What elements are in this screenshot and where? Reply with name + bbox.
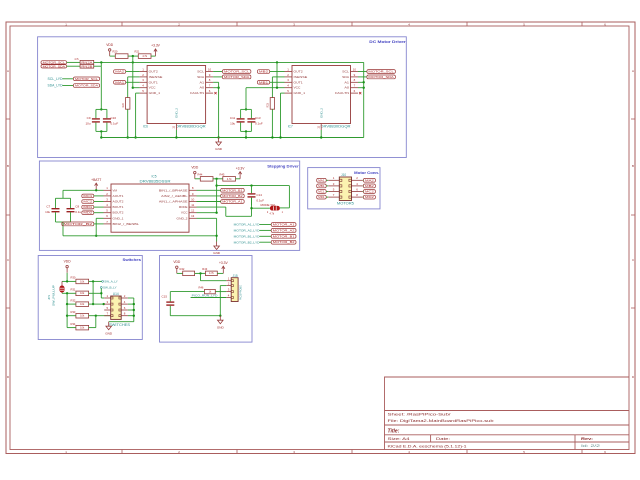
svg-text:R43: R43 bbox=[202, 267, 207, 271]
svg-text:MB2: MB2 bbox=[365, 184, 374, 188]
svg-text:4.7k: 4.7k bbox=[270, 213, 275, 216]
junction VCC1 bbox=[132, 87, 134, 89]
U14 pin 6 bbox=[121, 306, 128, 310]
svg-text:MA2: MA2 bbox=[365, 178, 374, 182]
junction U14 right tie 315.7 bbox=[133, 315, 135, 317]
wire C11/C13 top bracket bbox=[241, 108, 252, 110]
svg-text:OUT2: OUT2 bbox=[294, 70, 303, 74]
wire GND rail (DC drivers) bbox=[101, 137, 363, 139]
svg-text:VM: VM bbox=[113, 188, 118, 192]
svg-text:R21: R21 bbox=[135, 50, 140, 54]
junction IC6 pad/GND rail bbox=[175, 136, 177, 138]
IC5 pin 13 GND_2 bbox=[189, 214, 197, 218]
svg-text:BIN2_/_BENBL: BIN2_/_BENBL bbox=[113, 222, 140, 226]
svg-text:MOTOR_A1: MOTOR_A1 bbox=[273, 223, 295, 227]
wire BPHASE to MOTOR_B1 bbox=[197, 189, 221, 191]
svg-text:A: A bbox=[632, 69, 634, 73]
frame column ticks and zone numbers bbox=[65, 22, 606, 454]
global label MOTOR_SDA (IC6) bbox=[222, 75, 251, 79]
svg-text:MOTOR_B2: MOTOR_B2 bbox=[63, 222, 92, 226]
svg-text:R30: R30 bbox=[71, 276, 76, 280]
wire MC2 to AOUT2 bbox=[94, 201, 104, 203]
solder jumper SB2 (MODE SEL) bbox=[267, 206, 284, 216]
svg-text:R44: R44 bbox=[198, 172, 203, 176]
svg-text:ISENSE: ISENSE bbox=[149, 75, 163, 79]
IC5 pin 5 BOUT2 bbox=[104, 209, 112, 213]
C9 labels bbox=[85, 116, 90, 125]
junction A1 (IC7) bbox=[363, 81, 365, 83]
svg-text:4.7k: 4.7k bbox=[227, 178, 232, 181]
wire U14 right pin at 310 bbox=[128, 309, 134, 311]
junction rail / VCC2 feed bbox=[276, 61, 278, 63]
IC7 pin 5 GND_1 bbox=[285, 89, 293, 93]
resistor R45 bbox=[220, 172, 236, 181]
global label MD2 (conn) bbox=[363, 195, 375, 199]
global label MD2 bbox=[82, 211, 94, 215]
wire MA1 stub bbox=[326, 179, 328, 181]
J10 pin 2 bbox=[352, 176, 363, 180]
junction VCC feed/3.3V rail (stepper) bbox=[215, 184, 217, 186]
wire cap feed C7/C8 bbox=[62, 190, 64, 198]
capacitor C10 bbox=[103, 109, 111, 131]
svg-text:MOTOR_A2: MOTOR_A2 bbox=[273, 228, 295, 232]
wire A1 (IC7) bbox=[358, 81, 364, 83]
svg-text:GND_1: GND_1 bbox=[113, 216, 124, 220]
svg-text:FAULTN: FAULTN bbox=[190, 91, 204, 95]
IC7 pin 6 FAULTN bbox=[351, 89, 359, 93]
svg-text:A: A bbox=[7, 69, 9, 73]
global label MD1 (conn) bbox=[317, 195, 327, 199]
svg-text:C7: C7 bbox=[46, 205, 50, 209]
wire C14 bottom to MODE net bbox=[251, 198, 253, 216]
wire MOTOR_B2_LYD stub bbox=[260, 241, 272, 243]
svg-text:SCL: SCL bbox=[197, 70, 204, 74]
wire A1/A0 tie (IC7) bbox=[363, 62, 365, 137]
wire VCC2 feed vertical bbox=[276, 62, 278, 87]
resistor R34 bbox=[71, 322, 89, 330]
J10 pin 5 pad mark bbox=[339, 190, 342, 192]
svg-text:GND: GND bbox=[215, 147, 223, 151]
junction C11/C13 bottom bbox=[245, 130, 247, 132]
svg-text:A1: A1 bbox=[200, 80, 205, 84]
wire VDD to R42 bbox=[177, 272, 183, 274]
svg-text:R34: R34 bbox=[71, 322, 76, 326]
wire GND_1 (IC5) bbox=[96, 217, 103, 219]
global label MC2 (conn) bbox=[363, 190, 375, 194]
svg-text:R32: R32 bbox=[71, 298, 76, 302]
wire MA2 stub bbox=[362, 179, 365, 181]
J10 pin 3 pad mark bbox=[339, 185, 342, 187]
svg-text:D: D bbox=[632, 375, 634, 379]
svg-text:A0: A0 bbox=[200, 86, 205, 90]
svg-text:MOTOR_SCL: MOTOR_SCL bbox=[224, 70, 250, 74]
svg-text:13: 13 bbox=[191, 214, 195, 218]
svg-text:+BATT: +BATT bbox=[91, 178, 101, 182]
wire C7/C8 top bracket bbox=[56, 197, 71, 199]
svg-text:AIN1_/_APHASE: AIN1_/_APHASE bbox=[159, 200, 188, 204]
resistor R43 bbox=[202, 267, 217, 276]
wire IC7 pad to GND rail bbox=[320, 130, 322, 138]
solder jumper JP3 SW_PULLUP bbox=[47, 281, 65, 306]
svg-text:Size: A4: Size: A4 bbox=[388, 437, 410, 441]
IC5 pin 10 AIN1_/_APHASE bbox=[189, 197, 197, 201]
wire R32 to U14 pin 3 bbox=[89, 303, 105, 305]
global label MOTOR_SDA (IC7) bbox=[367, 75, 396, 79]
IC5 right pin names bbox=[159, 188, 188, 220]
wire SCL_LYD stub bbox=[63, 78, 74, 80]
junction R44/R45 node bbox=[215, 178, 217, 180]
svg-text:MOTOR_SDA: MOTOR_SDA bbox=[75, 84, 98, 88]
wire GND rail (stepper) bbox=[63, 235, 217, 237]
wire MD2 to BOUT2 bbox=[94, 212, 104, 214]
wire SCL1 bbox=[213, 71, 222, 73]
power symbol VDD (DC driver) bbox=[106, 43, 114, 56]
resistor R42 bbox=[180, 267, 195, 276]
svg-text:JP3: JP3 bbox=[47, 295, 51, 300]
svg-text:10u: 10u bbox=[45, 210, 50, 214]
IC7 pin 1 OUT2 bbox=[285, 67, 293, 71]
global label MOTOR_SDA (bus) bbox=[73, 84, 99, 88]
C13 labels bbox=[255, 116, 263, 125]
IC6 pin 11 (pad) bbox=[173, 124, 177, 131]
wire cap feed C9/C10 bbox=[100, 66, 102, 109]
junction GND_1/GND rail bbox=[134, 136, 136, 138]
IC7 pin 3 OUT1 bbox=[285, 78, 293, 82]
C11 labels bbox=[230, 116, 236, 125]
wire U14 pin2 bbox=[128, 297, 134, 299]
global label MOTOR_B2 (bottom) bbox=[271, 240, 296, 244]
wire A1/A0 tie to GND (IC6) bbox=[218, 82, 220, 137]
svg-text:11: 11 bbox=[191, 203, 194, 207]
svg-text:MOTOR_A1: MOTOR_A1 bbox=[222, 200, 243, 204]
J15 pin 2 pad mark bbox=[231, 285, 233, 287]
wire VCC2 row bbox=[246, 87, 285, 89]
svg-text:R42: R42 bbox=[180, 267, 185, 271]
C8 labels bbox=[75, 205, 81, 215]
svg-text:MOTOR_B1: MOTOR_B1 bbox=[273, 234, 295, 238]
power symbol GND (stepper) bbox=[213, 242, 221, 256]
wire APHASE to MOTOR_A1 bbox=[197, 201, 221, 203]
note box: Motor Conn section bbox=[308, 168, 380, 209]
no-connect FAULTN IC7 bbox=[359, 92, 361, 94]
U14 pin 2 bbox=[121, 294, 128, 298]
wire SCL to RN2A bbox=[67, 61, 81, 63]
IC6 pin 6 FAULTN bbox=[206, 89, 214, 93]
svg-text:D: D bbox=[7, 375, 9, 379]
wire ISENSE1 down bbox=[127, 77, 129, 98]
wire RN2B riser bbox=[100, 62, 102, 66]
wire R46 to C15 bbox=[170, 291, 204, 293]
wire GND rail (aux) bbox=[170, 315, 220, 317]
J15 pin 2 bbox=[226, 282, 231, 286]
J15 pin 1 pad mark bbox=[231, 280, 233, 282]
svg-text:C8: C8 bbox=[75, 205, 79, 209]
resistor R22 (sense, vertical) bbox=[122, 98, 130, 110]
J10 pin 3 bbox=[328, 182, 339, 186]
wire J15 pin4 PICO_RUN bbox=[191, 297, 227, 299]
U14 pin 2 pad mark bbox=[119, 297, 121, 299]
global label MA1 (conn) bbox=[317, 178, 327, 182]
svg-text:DRV8835DSSR: DRV8835DSSR bbox=[140, 179, 172, 183]
global label MOTOR_A1 (ctl) bbox=[221, 200, 245, 204]
svg-text:DRV8830DGQR: DRV8830DGQR bbox=[176, 125, 207, 129]
svg-text:SDA: SDA bbox=[197, 75, 205, 79]
svg-text:KiCad E.D.A. eeschema (5.1.12: KiCad E.D.A. eeschema (5.1.12)-1 bbox=[388, 444, 467, 448]
svg-text:R45: R45 bbox=[220, 172, 225, 176]
wire AENBL to MOTOR_B2 bbox=[197, 195, 221, 197]
junction R32 feed bbox=[66, 303, 68, 305]
power symbol GND (switches) bbox=[105, 322, 113, 336]
U14 pin 6 pad mark bbox=[119, 309, 121, 311]
svg-text:Title:: Title: bbox=[388, 429, 400, 435]
J10 pin 4 bbox=[352, 182, 363, 186]
C7 labels bbox=[45, 205, 50, 215]
wire IC6 pad to GND rail bbox=[175, 130, 177, 138]
U14 pin 4 pad mark bbox=[119, 303, 121, 305]
U14 pin 5 pad mark bbox=[111, 309, 113, 311]
wire MODE across bbox=[226, 215, 252, 217]
svg-text:MOTOR_B1_LYD: MOTOR_B1_LYD bbox=[234, 234, 260, 238]
switch array U14 body bbox=[111, 296, 122, 319]
wire C11/C13 bottom bracket bbox=[241, 130, 252, 132]
wire MODE row bbox=[197, 206, 226, 208]
title block texts bbox=[388, 413, 601, 449]
wire MODE down bbox=[225, 207, 227, 216]
resistor R33 bbox=[71, 310, 89, 318]
wire rail down to MODE SEL bbox=[288, 186, 290, 208]
IC6 pin 2 ISENSE bbox=[140, 73, 148, 77]
svg-text:Id: 2/2: Id: 2/2 bbox=[581, 444, 600, 448]
wire VDD to R20 bbox=[110, 55, 116, 57]
junction VDD/R30 bbox=[66, 280, 68, 282]
svg-text:MA2: MA2 bbox=[115, 70, 124, 74]
junction row4 bbox=[95, 315, 97, 317]
wire GND_1 down (IC6) bbox=[135, 93, 137, 137]
junction rail / C9 feed bbox=[100, 61, 102, 63]
svg-text:MC1: MC1 bbox=[318, 190, 325, 194]
IC7 pin 11 (pad) bbox=[317, 124, 321, 131]
wire SDA to RN2B bbox=[67, 65, 81, 67]
svg-text:SDA: SDA bbox=[342, 75, 350, 79]
note box: aux connector section bbox=[160, 256, 253, 343]
svg-text:MB2: MB2 bbox=[259, 70, 269, 74]
svg-text:MOTOR5: MOTOR5 bbox=[337, 202, 354, 206]
global label MOTOR_B2 (ctl) bbox=[221, 194, 245, 198]
svg-text:IC6: IC6 bbox=[143, 125, 148, 129]
svg-text:PICOPROBE: PICOPROBE bbox=[240, 285, 243, 300]
svg-text:SW_PULLUP: SW_PULLUP bbox=[52, 285, 56, 306]
svg-text:SW_B_LY: SW_B_LY bbox=[103, 286, 117, 290]
IC7 pin 10 SCL bbox=[351, 67, 359, 71]
svg-text:GND_1: GND_1 bbox=[294, 91, 306, 95]
wire MD1 to BOUT1 bbox=[94, 206, 104, 208]
wire MC1 to AOUT1 bbox=[94, 195, 104, 197]
svg-text:Rev:: Rev: bbox=[581, 437, 593, 441]
svg-text:Motor Conn.: Motor Conn. bbox=[354, 171, 379, 175]
wire VDD to R44 bbox=[195, 178, 201, 180]
wire pull-up feed vertical bbox=[66, 293, 68, 327]
U14 pin 7 bbox=[104, 312, 111, 316]
wire MD2 stub bbox=[362, 196, 365, 198]
IC6 pin 4 VCC bbox=[140, 84, 148, 88]
global label MB2 (conn) bbox=[363, 184, 375, 188]
wire SDA1 bbox=[213, 76, 222, 78]
svg-text:MA1: MA1 bbox=[318, 178, 325, 182]
C14 labels bbox=[256, 193, 264, 202]
junction R23/GND rail bbox=[271, 136, 273, 138]
wire J15 pin3 to R46 bbox=[215, 291, 226, 293]
svg-text:VDD: VDD bbox=[191, 166, 199, 170]
svg-text:Sheet: /RasPiPico-Sub/: Sheet: /RasPiPico-Sub/ bbox=[388, 413, 452, 417]
svg-text:SDA_LYD: SDA_LYD bbox=[48, 84, 64, 88]
svg-text:RN2B: RN2B bbox=[81, 64, 92, 68]
wire VCC row (IC5) bbox=[197, 212, 217, 214]
svg-text:4.7k: 4.7k bbox=[142, 55, 147, 58]
svg-text:FAULTN: FAULTN bbox=[335, 91, 349, 95]
wire +3.3V distribution rail bbox=[94, 61, 364, 63]
svg-text:GND_1: GND_1 bbox=[149, 91, 161, 95]
J15 pin 4 pad mark bbox=[231, 297, 233, 299]
IC6 pin 8 A1 bbox=[206, 78, 214, 82]
U14 pin 8 bbox=[121, 312, 128, 316]
wire R34 row bbox=[89, 327, 96, 329]
resistor network RN2B bbox=[80, 64, 94, 68]
IC7 right pin names bbox=[335, 70, 350, 96]
svg-text:IC7: IC7 bbox=[288, 125, 293, 129]
IC5 pin 6 GND_1 bbox=[104, 214, 112, 218]
wire JP3 to R31 bbox=[62, 292, 76, 294]
junction A0 (IC7) bbox=[363, 87, 365, 89]
svg-text:GND: GND bbox=[217, 325, 225, 329]
wire VDD row to R30 bbox=[62, 280, 76, 282]
svg-text:ISENSE: ISENSE bbox=[294, 75, 308, 79]
global label MA1 bbox=[114, 80, 126, 84]
junction rail/C14 bbox=[250, 184, 252, 186]
junction R20/R21 node bbox=[132, 55, 134, 57]
stepper driver IC5 DRV8835 body bbox=[111, 184, 189, 232]
wire caps to GND rail (stepper) bbox=[62, 222, 64, 236]
svg-text:A0: A0 bbox=[344, 86, 349, 90]
resistor network RN2A bbox=[74, 59, 93, 65]
wire C9/C10 bottom bracket bbox=[96, 130, 107, 132]
svg-text:MOTOR_B2: MOTOR_B2 bbox=[222, 194, 243, 198]
wire U14 right tie vertical bbox=[133, 298, 135, 322]
capacitor C9 bbox=[92, 109, 100, 131]
junction caps/GND rail bbox=[100, 136, 102, 138]
svg-text:MD1: MD1 bbox=[318, 195, 325, 199]
junction C11/C13 top bbox=[245, 108, 247, 110]
svg-text:C9: C9 bbox=[87, 116, 91, 120]
IC7 left pin names bbox=[294, 70, 308, 96]
global label MB2 bbox=[257, 70, 269, 74]
J10 pin 8 pad mark bbox=[349, 196, 352, 198]
global label MC1 bbox=[82, 194, 94, 198]
wire U14 right pin at 304.1 bbox=[128, 303, 134, 305]
svg-text:AOUT2: AOUT2 bbox=[113, 200, 124, 204]
wire to MODE SEL pin 1 bbox=[280, 207, 289, 209]
svg-text:R20: R20 bbox=[113, 50, 118, 54]
IC5 pin 3 AOUT2 bbox=[104, 197, 112, 201]
svg-text:12: 12 bbox=[191, 209, 195, 213]
wire MA1 to OUT1 bbox=[126, 81, 140, 83]
svg-text:OUT1: OUT1 bbox=[149, 80, 158, 84]
svg-text:B: B bbox=[7, 164, 9, 168]
svg-text:MOTOR_B2_LYD: MOTOR_B2_LYD bbox=[234, 240, 260, 244]
wire VCC feed (IC5) bbox=[216, 179, 218, 213]
IC7 pin 4 VCC bbox=[285, 84, 293, 88]
global label MD1 bbox=[82, 205, 94, 209]
global label MOTOR_A2 (bottom) bbox=[271, 228, 296, 232]
junction GND_1 IC5/GND rail bbox=[95, 235, 97, 237]
wire R45 to +3.3V bbox=[236, 178, 241, 180]
svg-text:MB1: MB1 bbox=[318, 184, 325, 188]
wire VDD stem (switches) bbox=[66, 273, 68, 282]
junction C9/C10 top bbox=[100, 108, 102, 110]
svg-text:MC2: MC2 bbox=[83, 200, 92, 204]
J10 pin 7 pad mark bbox=[339, 196, 342, 198]
wire 3.3V rail (stepper) bbox=[217, 185, 290, 187]
wire pin2 to GND bbox=[219, 286, 221, 316]
wire MB2 to OUT2 bbox=[270, 71, 285, 73]
IC6 left pin names bbox=[149, 70, 163, 96]
svg-text:VCC: VCC bbox=[294, 86, 302, 90]
junction U14 right tie 304.1 bbox=[133, 303, 135, 305]
svg-text:MA1: MA1 bbox=[115, 80, 124, 84]
U14 pin 4 bbox=[121, 300, 128, 304]
junction MODE SEL/C14 bbox=[250, 207, 252, 209]
wire ISENSE2 down bbox=[271, 77, 273, 98]
resistor R31 bbox=[71, 288, 89, 296]
junction pin3 bbox=[103, 303, 105, 305]
capacitor C15 bbox=[166, 292, 174, 316]
svg-text:DRV8830DGQR: DRV8830DGQR bbox=[321, 125, 352, 129]
wire MC2 stub bbox=[362, 191, 365, 193]
IC7 pin 2 ISENSE bbox=[285, 73, 293, 77]
connector J15 body bbox=[231, 278, 238, 302]
J10 pin 6 bbox=[352, 187, 363, 191]
IC6 pin 3 OUT1 bbox=[140, 78, 148, 82]
svg-text:R31: R31 bbox=[71, 288, 76, 292]
junction A0 (IC6) bbox=[217, 87, 219, 89]
wire GND_2 down (IC5) bbox=[216, 218, 218, 241]
svg-text:IC5: IC5 bbox=[152, 175, 157, 179]
wire C11/C13 to GND rail bbox=[245, 131, 247, 137]
svg-text:VCC: VCC bbox=[149, 86, 157, 90]
IC7 pin 7 A0 bbox=[351, 84, 359, 88]
IC6 pin 5 GND_1 bbox=[140, 89, 148, 93]
svg-text:R22: R22 bbox=[122, 102, 125, 107]
svg-text:Date:: Date: bbox=[436, 437, 450, 441]
svg-text:R46: R46 bbox=[199, 286, 204, 290]
svg-text:10: 10 bbox=[191, 197, 195, 201]
capacitor C8 bbox=[67, 198, 75, 222]
svg-text:BOUT1: BOUT1 bbox=[113, 205, 124, 209]
U14 pin 5 bbox=[104, 306, 111, 310]
svg-text:MOTOR_B1: MOTOR_B1 bbox=[222, 188, 243, 192]
title block bbox=[385, 377, 630, 450]
wire C9/C10 top bracket bbox=[96, 108, 107, 110]
wire U14 right pin at 315.7 bbox=[128, 315, 134, 317]
svg-text:C14: C14 bbox=[256, 193, 262, 197]
wire MOTOR_A1_LYD stub bbox=[260, 224, 272, 226]
J10 pin 7 bbox=[328, 193, 339, 197]
wire R31 row bbox=[89, 292, 102, 294]
IC5 pin 11 MODE bbox=[189, 203, 197, 207]
junction IC7 pad/GND rail bbox=[320, 136, 322, 138]
junction SW_B net bbox=[100, 292, 102, 294]
svg-text:A1: A1 bbox=[344, 80, 349, 84]
junction +BATT/VM bbox=[95, 189, 97, 191]
